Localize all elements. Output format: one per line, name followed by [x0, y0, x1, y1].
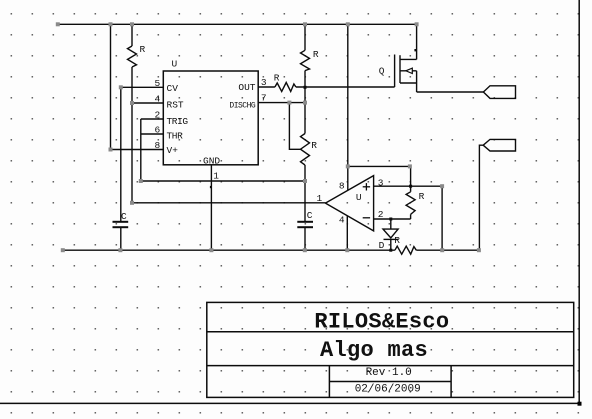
wire OUT to gate of Q1	[296, 86, 395, 88]
svg-text:R: R	[140, 44, 146, 55]
connector 1	[483, 86, 515, 99]
svg-text:R: R	[394, 235, 400, 246]
wire ground bus	[63, 249, 479, 251]
svg-text:8: 8	[155, 140, 161, 151]
svg-text:6: 6	[155, 125, 161, 136]
svg-text:THR: THR	[167, 131, 184, 142]
svg-text:U: U	[172, 59, 178, 70]
wire VCC to op-amp V+	[347, 24, 349, 190]
svg-text:R: R	[419, 191, 425, 202]
capacitor C2	[297, 222, 313, 227]
junction dot on drain	[414, 49, 416, 51]
node squares left section	[109, 85, 308, 205]
svg-text:GND: GND	[203, 155, 220, 166]
resistor R4	[301, 134, 310, 223]
svg-text:7: 7	[261, 92, 267, 103]
wire DISCHG	[258, 102, 305, 104]
wire op-amp pin 4 to ground	[346, 216, 348, 251]
transistor Q1 MOSFET	[395, 24, 417, 92]
resistor R6 (in bottom run)	[395, 246, 416, 254]
svg-text:RILOS&Esco: RILOS&Esco	[314, 310, 449, 335]
svg-text:02/06/2009: 02/06/2009	[355, 383, 421, 395]
junction pin3 wire / R5	[409, 185, 412, 188]
node squares ground bus	[61, 248, 481, 252]
svg-text:R: R	[313, 49, 319, 60]
wire C1 to ground	[120, 228, 122, 251]
node squares DISCHG	[287, 101, 307, 105]
svg-text:1: 1	[213, 171, 219, 182]
transistor Q1 arrow	[406, 68, 413, 73]
wire connector 2 to ground bus	[479, 145, 483, 250]
junction OUT/R2 node	[304, 86, 307, 89]
capacitor C1	[113, 222, 129, 227]
resistor R5	[406, 192, 415, 219]
node squares op-amp region	[346, 164, 444, 188]
wire C2 to ground	[304, 228, 306, 251]
svg-text:Algo mas: Algo mas	[320, 338, 428, 363]
node squares on VCC bus	[56, 22, 419, 26]
wire DISCHG tap to R4 mid	[289, 103, 300, 150]
wire op-amp output to RST (node)	[132, 202, 325, 204]
junction pin2 wire / D1	[389, 218, 392, 221]
svg-text:C: C	[121, 211, 127, 222]
svg-text:TRIG: TRIG	[167, 116, 189, 127]
svg-text:CV: CV	[167, 83, 179, 94]
svg-text:V+: V+	[167, 145, 179, 156]
svg-text:R: R	[311, 140, 317, 151]
connector 2	[483, 139, 515, 151]
svg-text:RST: RST	[167, 99, 184, 110]
svg-text:Rev 1.0: Rev 1.0	[366, 367, 412, 379]
wire 555 pin1 to ground	[210, 165, 212, 250]
svg-text:DISCHG: DISCHG	[229, 101, 256, 110]
svg-text:Q: Q	[379, 66, 385, 77]
wire V+ branch to pin 8	[111, 24, 164, 149]
svg-text:C: C	[307, 210, 313, 221]
wire VCC top bus	[58, 23, 417, 25]
op-amp minus sign	[363, 217, 370, 219]
svg-text:D: D	[379, 240, 385, 251]
op-amp plus sign	[363, 183, 370, 190]
svg-text:OUT: OUT	[238, 82, 255, 93]
svg-text:1: 1	[317, 193, 323, 204]
resistor R1	[128, 24, 137, 103]
junction D1 / ground bus	[389, 249, 392, 252]
svg-text:8: 8	[339, 180, 345, 191]
wire TRIG THR tie	[141, 119, 164, 181]
svg-text:2: 2	[155, 110, 161, 121]
svg-text:U: U	[356, 192, 362, 203]
wire RST branch	[132, 103, 163, 203]
wire Q1 source to connector 1	[417, 91, 484, 93]
svg-text:5: 5	[155, 78, 161, 89]
wire TRIG/THR to R4 node	[141, 180, 305, 182]
svg-text:4: 4	[155, 94, 161, 105]
junction small dot near pin1/wire crossing	[210, 186, 212, 188]
wire op-amp V+ to R5 top	[348, 166, 411, 191]
resistor R3 (OUT series)	[258, 83, 296, 92]
svg-text:R: R	[274, 73, 280, 84]
wire op-amp pin 3 node	[374, 186, 443, 250]
diode D1	[383, 219, 398, 250]
op-amp U2	[325, 176, 373, 231]
wire op-amp pin 2 node	[374, 218, 411, 220]
resistor R2 (VCC to OUT node)	[301, 24, 310, 133]
wire CV branch	[121, 87, 164, 222]
IC U1 555 body	[163, 71, 258, 165]
svg-text:4: 4	[339, 215, 345, 226]
